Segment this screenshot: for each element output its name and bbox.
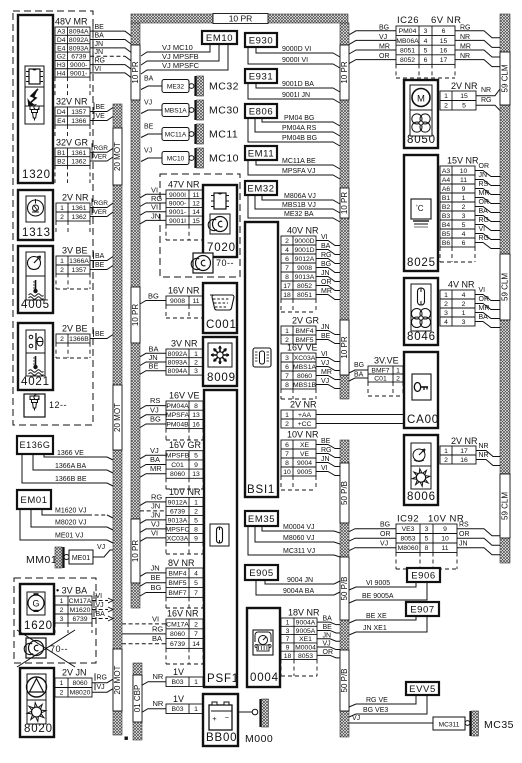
svg-text:9004A: 9004A: [296, 620, 316, 627]
svg-text:4V NR: 4V NR: [448, 280, 475, 290]
svg-text:8092A: 8092A: [168, 351, 188, 358]
svg-text:MC30: MC30: [209, 105, 239, 117]
svg-text:+CC: +CC: [298, 421, 312, 428]
svg-text:1: 1: [60, 598, 64, 605]
svg-text:MC11: MC11: [209, 129, 238, 141]
svg-text:VI: VI: [96, 593, 103, 600]
svg-text:E907: E907: [410, 604, 435, 615]
svg-text:PM04B: PM04B: [166, 421, 189, 428]
svg-text:BMF4: BMF4: [168, 570, 186, 577]
svg-text:B5: B5: [442, 231, 451, 238]
svg-text:2V BE: 2V BE: [62, 324, 88, 334]
svg-text:PM04B BG: PM04B BG: [282, 135, 317, 142]
svg-text:BA: BA: [152, 634, 162, 643]
svg-text:6739: 6739: [72, 616, 87, 623]
svg-text:JN: JN: [95, 49, 104, 56]
svg-text:BA: BA: [95, 253, 105, 260]
svg-text:9: 9: [194, 535, 198, 542]
svg-text:1V: 1V: [173, 667, 184, 677]
svg-text:13: 13: [192, 412, 200, 419]
svg-text:MC11A: MC11A: [165, 132, 187, 139]
svg-text:5: 5: [462, 222, 466, 229]
svg-text:VER: VER: [94, 209, 108, 216]
svg-text:2V NR: 2V NR: [290, 400, 317, 410]
svg-text:MC32: MC32: [209, 81, 239, 93]
svg-text:59 CLM: 59 CLM: [501, 492, 510, 520]
svg-text:1: 1: [194, 499, 198, 506]
svg-text:3V BE: 3V BE: [62, 246, 88, 256]
svg-text:ʼC: ʼC: [416, 204, 424, 213]
svg-text:4: 4: [285, 247, 289, 254]
svg-text:ME01: ME01: [72, 555, 90, 562]
svg-text:7: 7: [194, 631, 198, 638]
svg-text:4: 4: [424, 38, 428, 45]
svg-text:10 PR: 10 PR: [131, 304, 140, 326]
svg-text:18: 18: [283, 292, 291, 299]
svg-text:OR: OR: [479, 199, 490, 206]
svg-text:PM04: PM04: [399, 28, 417, 35]
svg-text:9000D VI: 9000D VI: [282, 46, 311, 53]
svg-text:VE: VE: [300, 451, 310, 458]
svg-text:9001-: 9001-: [169, 209, 186, 216]
svg-text:OR: OR: [459, 531, 470, 538]
svg-text:A3: A3: [442, 168, 451, 175]
svg-text:8093A: 8093A: [168, 359, 188, 366]
svg-text:16V VE: 16V VE: [287, 343, 318, 353]
svg-text:6: 6: [285, 256, 289, 263]
svg-text:18V NR: 18V NR: [288, 608, 320, 618]
svg-text:OR: OR: [379, 53, 390, 60]
svg-text:C01: C01: [171, 462, 184, 469]
svg-text:6739: 6739: [170, 508, 185, 515]
svg-text:3: 3: [424, 28, 428, 35]
svg-text:M1620 VJ: M1620 VJ: [55, 508, 87, 515]
svg-text:3: 3: [194, 368, 198, 375]
svg-text:10V NR: 10V NR: [169, 487, 201, 497]
svg-text:E4: E4: [57, 45, 66, 52]
svg-text:1366B: 1366B: [69, 336, 89, 343]
svg-text:17: 17: [460, 448, 468, 455]
svg-text:H3: H3: [57, 62, 66, 69]
svg-text:MR: MR: [379, 44, 390, 51]
svg-text:MC10: MC10: [209, 153, 239, 165]
svg-text:10 PR: 10 PR: [340, 192, 349, 214]
svg-text:MR: MR: [321, 288, 332, 295]
svg-text:8051: 8051: [400, 47, 415, 54]
svg-text:VJ: VJ: [323, 641, 331, 648]
svg-text:VI 9005: VI 9005: [366, 580, 390, 587]
svg-text:BE: BE: [321, 438, 331, 445]
svg-text:7: 7: [194, 590, 198, 597]
svg-text:BE: BE: [323, 624, 333, 631]
svg-text:1357: 1357: [71, 267, 86, 274]
svg-text:E931: E931: [249, 71, 274, 82]
svg-text:MM01: MM01: [26, 554, 57, 566]
svg-text:RG: RG: [151, 194, 162, 203]
svg-text:2: 2: [194, 508, 198, 515]
svg-text:10 PR: 10 PR: [340, 61, 349, 83]
svg-text:M000: M000: [245, 733, 273, 745]
svg-text:2: 2: [462, 204, 466, 211]
svg-text:BE: BE: [95, 24, 105, 31]
svg-text:8060: 8060: [170, 471, 185, 478]
svg-text:9: 9: [443, 526, 447, 533]
svg-text:OR: OR: [380, 531, 391, 538]
svg-text:BA: BA: [321, 243, 331, 250]
svg-text:6739: 6739: [170, 641, 185, 648]
svg-text:8053: 8053: [400, 536, 415, 543]
svg-text:8006: 8006: [407, 491, 436, 503]
svg-text:A3: A3: [57, 29, 66, 36]
svg-text:MC35: MC35: [484, 719, 514, 731]
svg-text:BMF4: BMF4: [295, 328, 313, 335]
svg-text:5: 5: [425, 536, 429, 543]
svg-text:8: 8: [425, 545, 429, 552]
svg-text:BE: BE: [149, 362, 159, 371]
svg-text:11: 11: [192, 192, 199, 199]
svg-text:2: 2: [60, 267, 64, 274]
svg-text:8094A: 8094A: [168, 368, 188, 375]
svg-text:6: 6: [285, 442, 289, 449]
svg-text:BMF7: BMF7: [371, 367, 389, 374]
svg-text:13: 13: [192, 471, 200, 478]
svg-text:BG: BG: [150, 415, 161, 424]
svg-text:VJ: VJ: [352, 715, 360, 722]
svg-text:1: 1: [462, 195, 466, 202]
svg-text:B03: B03: [171, 706, 183, 713]
svg-text:2: 2: [60, 690, 64, 697]
svg-text:9001I: 9001I: [169, 218, 186, 225]
svg-text:BG VE3: BG VE3: [363, 707, 388, 714]
svg-text:5: 5: [424, 47, 428, 54]
svg-text:XE1: XE1: [299, 636, 312, 643]
svg-text:JN: JN: [151, 501, 160, 510]
svg-text:8060: 8060: [170, 631, 185, 638]
svg-text:M0004 VJ: M0004 VJ: [283, 524, 315, 531]
svg-text:1: 1: [60, 680, 64, 687]
svg-text:M: M: [417, 94, 425, 105]
svg-text:10: 10: [283, 469, 291, 476]
svg-text:BA: BA: [149, 344, 159, 353]
svg-text:EM11: EM11: [248, 148, 275, 159]
svg-text:EM35: EM35: [248, 514, 275, 525]
svg-text:2V GR: 2V GR: [292, 316, 320, 326]
svg-text:• 3V BA: • 3V BA: [56, 586, 87, 596]
svg-text:9012A: 9012A: [168, 499, 188, 506]
svg-text:JN: JN: [95, 41, 104, 48]
svg-text:E4: E4: [57, 118, 66, 125]
svg-text:9004A BA: 9004A BA: [283, 588, 314, 595]
svg-text:9000I VI: 9000I VI: [282, 57, 308, 64]
svg-text:8009: 8009: [207, 372, 236, 384]
svg-text:15V NR: 15V NR: [447, 156, 479, 166]
svg-text:VJ: VJ: [144, 148, 152, 155]
svg-text:2: 2: [444, 457, 448, 464]
svg-text:9012A: 9012A: [295, 256, 315, 263]
svg-text:C001: C001: [206, 319, 237, 331]
svg-text:9004: 9004: [297, 460, 312, 467]
svg-text:BE XE: BE XE: [366, 613, 387, 620]
svg-text:6: 6: [442, 28, 446, 35]
svg-text:9008: 9008: [170, 298, 185, 305]
svg-text:11: 11: [441, 545, 448, 552]
svg-text:3V.VE: 3V.VE: [374, 356, 399, 366]
svg-text:16: 16: [440, 47, 448, 54]
svg-text:14: 14: [192, 209, 200, 216]
svg-text:5: 5: [194, 517, 198, 524]
svg-text:M1620: M1620: [70, 607, 91, 614]
svg-text:70--: 70--: [216, 258, 234, 268]
svg-text:8046: 8046: [407, 331, 436, 343]
svg-text:4005: 4005: [21, 299, 50, 311]
svg-text:CM17A: CM17A: [69, 598, 92, 605]
svg-text:BA: BA: [150, 455, 160, 464]
svg-text:RG: RG: [152, 624, 163, 633]
svg-text:XE: XE: [300, 442, 310, 449]
svg-text:9: 9: [194, 462, 198, 469]
svg-text:EM32: EM32: [247, 183, 274, 194]
svg-text:4021: 4021: [21, 376, 50, 388]
svg-text:6: 6: [285, 364, 289, 371]
svg-text:01 CBP: 01 CBP: [133, 685, 142, 713]
svg-text:MPSFA: MPSFA: [166, 412, 190, 419]
svg-text:7: 7: [285, 451, 289, 458]
svg-text:BG: BG: [321, 261, 331, 268]
svg-text:4: 4: [462, 231, 466, 238]
svg-text:B6: B6: [442, 240, 451, 247]
svg-text:10 PR: 10 PR: [131, 61, 140, 83]
svg-text:10 PR: 10 PR: [229, 14, 253, 24]
svg-text:2V JN: 2V JN: [62, 668, 87, 678]
svg-text:VJ: VJ: [150, 405, 159, 414]
svg-text:VI: VI: [479, 287, 486, 294]
svg-text:1V: 1V: [173, 694, 184, 704]
svg-text:7: 7: [285, 265, 289, 272]
svg-text:0004: 0004: [250, 672, 279, 684]
svg-text:BE: BE: [95, 262, 105, 269]
svg-text:VI: VI: [321, 351, 328, 358]
svg-text:VJ: VJ: [97, 544, 105, 551]
svg-text:RG: RG: [479, 217, 490, 224]
svg-text:E806: E806: [249, 106, 274, 117]
svg-text:PM04A: PM04A: [166, 403, 189, 410]
svg-text:32V GR: 32V GR: [56, 138, 89, 148]
svg-text:IC26: IC26: [397, 15, 419, 26]
svg-text:18: 18: [284, 653, 292, 660]
svg-text:12--: 12--: [49, 400, 67, 410]
svg-text:BE: BE: [321, 333, 331, 340]
svg-text:7: 7: [285, 373, 289, 380]
svg-text:32V NR: 32V NR: [56, 97, 88, 107]
svg-text:9000-: 9000-: [169, 200, 186, 207]
svg-text:B2: B2: [442, 204, 451, 211]
svg-text:2: 2: [285, 421, 289, 428]
svg-text:1: 1: [285, 328, 289, 335]
svg-text:RS: RS: [479, 181, 489, 188]
svg-text:NR: NR: [460, 34, 470, 41]
svg-text:1361: 1361: [71, 205, 86, 212]
svg-text:2: 2: [396, 375, 400, 382]
svg-text:VE3: VE3: [402, 526, 415, 533]
svg-text:17: 17: [283, 283, 291, 290]
svg-text:A6: A6: [442, 186, 451, 193]
svg-text:D4: D4: [57, 109, 66, 116]
svg-text:9: 9: [462, 186, 466, 193]
svg-text:H4: H4: [57, 70, 66, 77]
svg-text:15: 15: [460, 93, 468, 100]
svg-text:4: 4: [194, 570, 198, 577]
svg-text:8051: 8051: [297, 292, 312, 299]
svg-text:ME32: ME32: [167, 84, 185, 91]
svg-text:2: 2: [60, 214, 64, 221]
svg-text:BE: BE: [144, 124, 154, 131]
svg-text:MPSFC: MPSFC: [166, 526, 190, 533]
svg-text:59 CLM: 59 CLM: [501, 273, 510, 301]
svg-text:JN: JN: [321, 456, 330, 463]
svg-text:9: 9: [286, 644, 290, 651]
svg-text:2: 2: [194, 359, 198, 366]
svg-text:NR: NR: [153, 699, 164, 708]
svg-text:+AA: +AA: [298, 412, 312, 419]
svg-text:8: 8: [285, 274, 289, 281]
svg-text:3: 3: [444, 310, 448, 317]
svg-text:2V NR: 2V NR: [451, 81, 478, 91]
svg-text:XC03A: XC03A: [294, 355, 316, 362]
svg-text:8092A: 8092A: [69, 37, 89, 44]
svg-text:M8060: M8060: [398, 545, 419, 552]
svg-text:1: 1: [194, 679, 198, 686]
svg-text:BG: BG: [354, 362, 364, 369]
svg-text:1: 1: [194, 351, 198, 358]
svg-text:3: 3: [462, 213, 466, 220]
svg-text:1620: 1620: [24, 620, 53, 632]
svg-text:9000-: 9000-: [70, 62, 87, 69]
svg-text:10 PR: 10 PR: [340, 336, 349, 358]
svg-text:8093A: 8093A: [69, 45, 89, 52]
svg-text:9013A: 9013A: [168, 517, 188, 524]
svg-text:2: 2: [60, 336, 64, 343]
svg-text:BE: BE: [95, 331, 105, 338]
svg-text:JN XE1: JN XE1: [363, 625, 387, 632]
svg-text:RG: RG: [321, 252, 332, 259]
svg-text:VER: VER: [94, 154, 108, 161]
svg-text:BA: BA: [354, 372, 364, 379]
svg-text:15: 15: [440, 38, 448, 45]
svg-text:B2: B2: [57, 158, 66, 165]
svg-text:BE: BE: [151, 573, 161, 582]
svg-text:9001I JN: 9001I JN: [282, 92, 310, 99]
svg-text:E905: E905: [249, 568, 274, 579]
svg-text:VJ: VJ: [321, 378, 329, 385]
svg-text:E930: E930: [249, 35, 274, 46]
svg-text:1366B BE: 1366B BE: [55, 476, 87, 483]
svg-text:17: 17: [440, 57, 448, 64]
svg-text:9008: 9008: [297, 265, 312, 272]
svg-text:CA00: CA00: [407, 414, 439, 426]
svg-text:16V NR: 16V NR: [167, 609, 199, 619]
svg-text:1362: 1362: [71, 214, 86, 221]
svg-text:8060: 8060: [72, 680, 87, 687]
svg-text:XC03A: XC03A: [167, 535, 189, 542]
svg-text:1: 1: [444, 292, 448, 299]
svg-text:1: 1: [444, 448, 448, 455]
svg-text:JN: JN: [321, 324, 330, 331]
svg-text:VI: VI: [151, 528, 158, 537]
svg-text:VJ: VJ: [150, 446, 159, 455]
svg-text:2: 2: [194, 621, 198, 628]
svg-text:MC10: MC10: [167, 156, 185, 163]
svg-text:VI: VI: [95, 66, 102, 73]
svg-text:9000I: 9000I: [169, 192, 186, 199]
svg-text:6V NR: 6V NR: [431, 15, 461, 26]
svg-text:BE 9005A: BE 9005A: [362, 593, 394, 600]
svg-text:2V NR: 2V NR: [451, 436, 478, 446]
svg-text:OR: OR: [323, 649, 334, 656]
svg-text:9013A: 9013A: [295, 274, 315, 281]
svg-text:VJ: VJ: [379, 34, 387, 41]
svg-text:M8020: M8020: [70, 690, 91, 697]
svg-text:3: 3: [286, 628, 290, 635]
svg-text:RS: RS: [150, 396, 160, 405]
svg-text:PSF1: PSF1: [207, 673, 239, 685]
svg-text:OR: OR: [321, 279, 332, 286]
svg-text:8: 8: [285, 382, 289, 389]
svg-text:PM04A RS: PM04A RS: [282, 125, 317, 132]
svg-text:8060: 8060: [297, 373, 312, 380]
svg-text:MR: MR: [479, 305, 490, 312]
svg-text:MC11A BE: MC11A BE: [282, 158, 316, 165]
svg-text:NR: NR: [481, 87, 491, 94]
svg-text:10: 10: [441, 536, 449, 543]
svg-text:MBS1A: MBS1A: [293, 364, 317, 371]
svg-text:PM04 BG: PM04 BG: [284, 115, 314, 122]
svg-text:1: 1: [194, 706, 198, 713]
svg-text:8053: 8053: [298, 653, 313, 660]
svg-text:NR: NR: [460, 53, 470, 60]
svg-text:RG: RG: [460, 24, 471, 31]
svg-text:BG: BG: [148, 292, 159, 301]
svg-text:8025: 8025: [407, 257, 436, 269]
svg-text:2V NR: 2V NR: [62, 193, 89, 203]
svg-text:10 PR: 10 PR: [131, 540, 140, 562]
svg-text:40V NR: 40V NR: [287, 226, 319, 236]
svg-text:2: 2: [444, 301, 448, 308]
svg-text:2: 2: [444, 103, 448, 110]
svg-text:BA: BA: [323, 616, 333, 623]
svg-text:15: 15: [192, 218, 200, 225]
svg-text:VJ MC10: VJ MC10: [162, 43, 193, 52]
svg-text:VI: VI: [321, 465, 328, 472]
svg-text:9001D: 9001D: [294, 247, 314, 254]
svg-text:IC92: IC92: [397, 514, 419, 525]
svg-text:50 P/B: 50 P/B: [340, 668, 349, 692]
svg-text:VI: VI: [151, 203, 158, 212]
svg-text:16: 16: [460, 457, 468, 464]
svg-text:3: 3: [462, 319, 466, 326]
svg-text:1362: 1362: [71, 158, 86, 165]
svg-text:1361: 1361: [71, 150, 86, 157]
svg-text:JN: JN: [149, 353, 158, 362]
svg-text:B4: B4: [442, 222, 451, 229]
svg-text:M0004: M0004: [295, 644, 316, 651]
svg-text:E906: E906: [411, 570, 436, 581]
svg-text:G: G: [32, 599, 39, 609]
svg-text:1: 1: [462, 310, 466, 317]
svg-text:OR: OR: [479, 163, 490, 170]
svg-text:16V GR: 16V GR: [169, 440, 202, 450]
svg-text:JN: JN: [459, 541, 468, 548]
svg-text:4: 4: [444, 319, 448, 326]
